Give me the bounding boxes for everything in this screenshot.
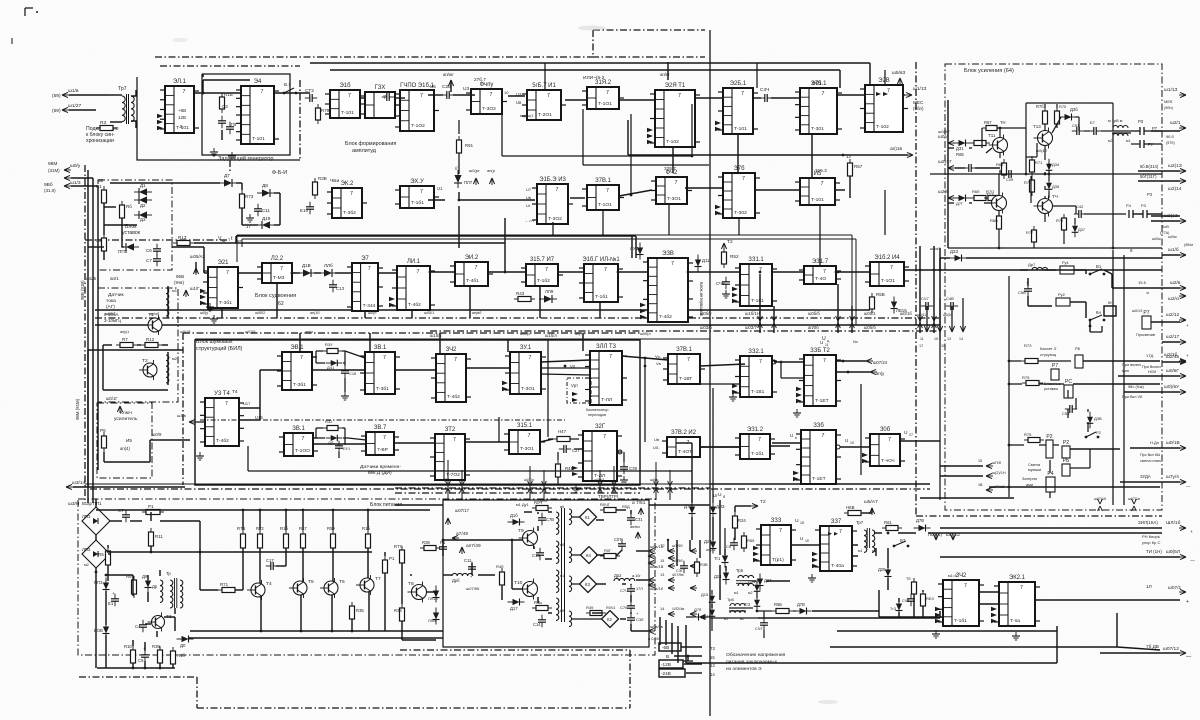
wire mid long y236: [236, 235, 568, 237]
svg-text:10: 10: [504, 90, 509, 95]
svg-text:R1З: R1З: [178, 235, 187, 240]
svg-text:ЭВ.1: ЭВ.1: [290, 345, 304, 351]
diode D7 rowB: [219, 182, 224, 184]
legend -6V: [659, 643, 681, 651]
svg-text:Т4: Т4: [232, 389, 238, 394]
wire long y155: [627, 120, 629, 155]
svg-text:Блок формирования: Блок формирования: [345, 141, 396, 147]
svg-text:К2: К2: [607, 617, 612, 622]
svg-text:7: 7: [417, 269, 420, 275]
svg-text:14: 14: [710, 672, 715, 677]
capacitor C7B: [541, 513, 543, 518]
IC E16.1 I1: [527, 90, 561, 120]
svg-text:С5В: С5В: [1018, 290, 1026, 295]
svg-text:7: 7: [528, 433, 531, 439]
svg-text:5б.В(314): 5б.В(314): [1140, 164, 1159, 169]
generator block frame: [137, 77, 300, 160]
terminal pairs mod right: [648, 550, 655, 552]
resistor R43: [518, 297, 531, 302]
svg-text:5гБ.7 И1: 5гБ.7 И1: [532, 83, 556, 89]
svg-text:Р7: Р7: [1152, 126, 1158, 131]
capacitor C38: [623, 462, 625, 467]
svg-text:Тг1: Тг1: [714, 556, 721, 561]
bridge LP2: [82, 540, 110, 568]
svg-text:U17: U17: [243, 401, 251, 406]
svg-text:ш2/1: ш2/1: [1170, 120, 1181, 126]
psu mid rail: [199, 521, 201, 552]
svg-text:С7В: С7В: [546, 517, 554, 522]
diode D2 ustavki: [147, 199, 152, 201]
svg-text:(9бп): (9бп): [1164, 106, 1174, 110]
svg-text:Д1б: Д1б: [510, 513, 518, 518]
svg-text:R71: R71: [1035, 160, 1043, 165]
svg-text:Т-1ОО: Т-1ОО: [295, 448, 310, 454]
relay RC: [1064, 385, 1073, 398]
svg-text:ш2)14: ш2)14: [1168, 186, 1182, 192]
ground rowC left: [209, 303, 211, 307]
svg-text:ш0(5Л: ш0(5Л: [1166, 549, 1180, 555]
svg-text:ап(4): ап(4): [120, 446, 130, 451]
svg-text:С31: С31: [635, 517, 643, 522]
capacitor C51: [1072, 130, 1077, 132]
transistor T13: [1038, 131, 1053, 146]
svg-text:ЭК2.1: ЭК2.1: [1009, 575, 1026, 581]
svg-text:Э7б: Э7б: [734, 166, 746, 172]
svg-text:С7б: С7б: [620, 605, 628, 610]
diode D7B br: [914, 527, 919, 529]
capacitor L45 br: [910, 594, 912, 599]
frame bottom outer dash: [79, 676, 197, 678]
IC E31.7: [804, 266, 836, 284]
svg-text:Блок судвоения: Блок судвоения: [255, 293, 296, 299]
wire psu out right: [189, 637, 443, 639]
svg-text:Т-2О1: Т-2О1: [538, 112, 552, 118]
legend -12V: [659, 660, 683, 668]
svg-text:НОИ: НОИ: [1148, 370, 1157, 374]
svg-text:Т-4б2: Т-4б2: [216, 438, 229, 444]
svg-text:R0Ч1: R0Ч1: [606, 606, 616, 610]
svg-text:Т-3б2: Т-3б2: [343, 210, 356, 216]
svg-text:ап(у1: ап(у1: [120, 330, 129, 334]
central bus dash line b: [95, 324, 940, 326]
capacitor GB osc: [229, 122, 231, 127]
svg-text:1б: 1б: [800, 521, 804, 525]
wires amp upper: [948, 147, 954, 149]
svg-text:7: 7: [183, 89, 186, 95]
capacitor C4B rowC: [725, 277, 727, 282]
svg-text:С11: С11: [262, 208, 270, 213]
svg-text:С2В: С2В: [442, 84, 451, 90]
wires E42 area: [898, 598, 900, 602]
svg-text:ш2/17: ш2/17: [1166, 334, 1180, 340]
svg-text:В: В: [666, 654, 669, 659]
svg-text:R11: R11: [155, 534, 163, 539]
svg-text:ап/1: ап/1: [110, 276, 119, 281]
svg-text:Д29: Д29: [878, 567, 886, 572]
svg-text:ш0/м: ш0/м: [1152, 237, 1161, 241]
capacitor C7 psu: [125, 510, 127, 515]
svg-text:ш1/5: ш1/5: [86, 276, 96, 281]
IC E4 oscillator: [241, 86, 274, 144]
svg-text:407/5в: 407/5в: [672, 573, 684, 577]
svg-text:ЗВ.7: ЗВ.7: [374, 425, 387, 431]
resistor R57: [848, 163, 853, 176]
relay R7 mid: [1051, 369, 1059, 380]
svg-text:Т-302: Т-302: [734, 210, 747, 216]
IC 315.7 I7: [526, 264, 558, 286]
svg-text:м1: м1: [172, 288, 178, 293]
svg-text:7: 7: [475, 265, 478, 271]
svg-text:7г3: 7г3: [890, 606, 897, 611]
frame top dash line 2: [160, 65, 300, 67]
svg-text:музыки: музыки: [1028, 467, 1041, 472]
svg-text:ЭХ.У: ЭХ.У: [410, 179, 424, 185]
svg-text:7: 7: [606, 188, 609, 194]
wire rowB to rowC drops: [458, 206, 460, 248]
transistor T2 datchik: [143, 363, 157, 377]
wires row B: [428, 199, 445, 201]
capacitor C4 psu: [142, 620, 144, 625]
svg-text:Т-1б1: Т-1б1: [954, 618, 967, 624]
svg-text:Тр: Тр: [166, 571, 171, 576]
svg-text:U: U: [795, 518, 799, 524]
svg-text:м2: м2: [748, 591, 752, 595]
svg-text:ш0/4: ш0/4: [938, 134, 949, 140]
IC E16G I2Ya: [584, 264, 618, 302]
svg-text:ЗЗБ Т2: ЗЗБ Т2: [810, 348, 830, 354]
IC E31.2: [740, 434, 770, 459]
svg-text:ЛЛб: ЛЛб: [324, 263, 333, 268]
wires Tg2 cluster: [711, 604, 713, 608]
svg-text:ш(2)/1Н: ш(2)/1Н: [992, 471, 1006, 475]
diode PP3: [105, 578, 107, 583]
svg-text:R77: R77: [1026, 230, 1033, 235]
relay Ru1: [1060, 266, 1074, 274]
svg-text:ТрБ: ТрБ: [727, 597, 734, 602]
wire rowA top runs: [450, 80, 452, 92]
resistor R44 mod: [536, 506, 548, 511]
svg-text:ЗЗ7: ЗЗ7: [831, 519, 841, 525]
diode VOV: [105, 622, 107, 627]
svg-text:7: 7: [742, 176, 745, 182]
relay boxes R3 R7 right: [1128, 210, 1130, 218]
svg-text:С4Ч: С4Ч: [760, 87, 769, 93]
diode D15: [711, 591, 713, 596]
svg-text:Д37: Д37: [1078, 227, 1085, 232]
transformer Tr6: [730, 604, 745, 607]
svg-text:Т-1б1: Т-1б1: [595, 294, 608, 300]
svg-text:РЗ: РЗ: [1138, 119, 1144, 124]
svg-text:упор Кр С: упор Кр С: [1142, 540, 1160, 545]
coil datchik: [166, 288, 169, 316]
svg-text:СЧ7: СЧ7: [921, 296, 929, 301]
svg-text:Д7Г: Д7Г: [956, 201, 964, 206]
mixer K1: [580, 509, 597, 526]
svg-text:R5Д: R5Д: [622, 504, 630, 509]
svg-text:ЭЗВ: ЭЗВ: [662, 251, 674, 257]
svg-text:13: 13: [947, 337, 951, 341]
svg-text:смена плать: смена плать: [1140, 459, 1161, 463]
svg-text:Т-1О2: Т-1О2: [411, 123, 425, 129]
svg-text:ш1/б: ш1/б: [1168, 247, 1179, 253]
frame amplifiers block: [945, 64, 1162, 510]
svg-text:ЛЛ1б: ЛЛ1б: [428, 596, 439, 601]
svg-text:Т-102: Т-102: [666, 139, 679, 145]
svg-text:из элементов Э: из элементов Э: [726, 666, 762, 672]
resistor R70: [988, 196, 999, 201]
IC EI.2: [455, 262, 488, 286]
thyristor Tg1: [724, 551, 726, 556]
IC 332.1: [740, 356, 772, 397]
relay P3 box: [1062, 446, 1070, 458]
diode D8: [257, 192, 262, 194]
terminal sh5/v3 top: [899, 78, 901, 85]
svg-text:Д9: Д9: [142, 574, 148, 579]
svg-text:R38: R38: [394, 608, 402, 613]
resistor R11 psu: [149, 532, 154, 546]
svg-text:Т-3О1: Т-3О1: [520, 446, 534, 452]
svg-text:12В: 12В: [178, 115, 186, 120]
svg-text:Uг: Uг: [526, 203, 531, 208]
svg-text:ЭИ.2: ЭИ.2: [465, 255, 479, 261]
svg-text:R59: R59: [327, 526, 335, 531]
smudge 2: [818, 700, 838, 704]
svg-text:С07: С07: [614, 537, 622, 542]
svg-text:15: 15: [941, 344, 945, 348]
svg-text:ш0(4б: ш0(4б: [1036, 149, 1048, 153]
wires to right bottom terminals: [940, 556, 1130, 558]
IC E3B.2 I2: [667, 437, 700, 457]
svg-text:U: U: [718, 492, 722, 498]
resistor R2 ustavki: [102, 238, 107, 251]
svg-text:К3: К3: [585, 582, 590, 587]
svg-text:R3У: R3У: [325, 342, 333, 347]
wires rowD rc: [312, 356, 316, 358]
diode LV15: [893, 297, 895, 302]
relay P2 box: [1046, 440, 1053, 458]
svg-text:R69: R69: [996, 162, 1004, 167]
capacitor C17 psu: [266, 565, 271, 567]
svg-text:Т(р1): Т(р1): [772, 557, 784, 563]
svg-text:Т-40а: Т-40а: [831, 563, 844, 569]
capacitor C11 rowB: [257, 204, 259, 209]
svg-text:Кассет З`: Кассет З`: [1040, 346, 1058, 351]
svg-text:R0Г: R0Г: [604, 548, 612, 553]
resistor R71 amp: [1030, 160, 1035, 172]
svg-text:7: 7: [420, 93, 423, 99]
terminals under C47: [926, 306, 928, 330]
svg-text:СЧВ: СЧВ: [716, 281, 725, 286]
svg-text:ЗУ.1: ЗУ.1: [520, 345, 532, 351]
svg-text:Блок шумовых: Блок шумовых: [196, 339, 233, 345]
svg-text:ТИ (1Н): ТИ (1Н): [1146, 549, 1162, 554]
IC E L.1 (driving oscillator): [165, 86, 194, 133]
svg-text:7: 7: [350, 191, 353, 197]
svg-text:7: 7: [822, 433, 825, 439]
terminal sh2/17 amp: [948, 167, 955, 169]
diode D37: [1074, 221, 1076, 226]
svg-text:Сб: Сб: [726, 544, 732, 549]
resistor R59 col: [331, 534, 336, 548]
capacitor EU1 rowE: [338, 441, 340, 446]
diode D16 br2: [711, 605, 713, 610]
resistor R5 psu: [106, 551, 111, 565]
capacitor C2V: [442, 94, 447, 96]
svg-text:R7б: R7б: [1036, 104, 1044, 109]
svg-text:R77: R77: [394, 544, 402, 549]
svg-text:ш2/сг: ш2/сг: [1168, 296, 1180, 302]
resistor R73: [240, 194, 245, 208]
svg-text:Дрб: Дрб: [452, 578, 460, 583]
svg-text:Т-1О1: Т-1О1: [598, 202, 612, 208]
IC T1L: [668, 354, 700, 384]
svg-text:ап(70: ап(70: [575, 332, 584, 336]
svg-text:R5Б: R5Б: [774, 602, 782, 607]
svg-text:С09: С09: [1006, 177, 1013, 182]
frame top dash line 3: [592, 56, 705, 58]
svg-text:3В: 3В: [98, 178, 103, 183]
svg-text:R12: R12: [146, 337, 155, 342]
wires mixers out: [596, 519, 604, 521]
svg-text:5чВ: 5чВ: [1162, 224, 1169, 229]
svg-text:R79: R79: [1022, 375, 1030, 380]
svg-text:R79: R79: [321, 108, 330, 113]
wire verticals upper extra: [544, 63, 546, 90]
svg-text:11: 11: [825, 343, 829, 347]
svg-text:м2: м2: [172, 356, 178, 361]
ground E42: [935, 630, 937, 634]
terminal sh1/27: [62, 109, 69, 111]
svg-text:ш0(рт: ш0(рт: [469, 168, 480, 173]
svg-text:ш2)17: ш2)17: [938, 159, 952, 165]
svg-text:Р2: Р2: [1096, 430, 1102, 435]
svg-text:С3: С3: [222, 104, 228, 109]
capacitor C16 rowD: [344, 366, 346, 371]
svg-text:ш0/1З: ш0/1З: [1132, 309, 1143, 313]
svg-text:96В: 96В: [176, 274, 184, 279]
svg-text:R55: R55: [747, 538, 755, 543]
resistor R63 br: [921, 594, 926, 606]
svg-text:Прс Вкл КЫ: Прс Вкл КЫ: [1140, 453, 1160, 457]
wires vertical feeds DE: [299, 333, 301, 352]
svg-text:R67: R67: [984, 120, 992, 125]
resistor R69: [1002, 163, 1007, 175]
terminal sh5/A7: [871, 508, 873, 515]
svg-text:ш05/1: ш05/1: [424, 311, 434, 315]
svg-text:стукующ: стукующ: [1040, 352, 1057, 357]
svg-text:С13: С13: [336, 286, 345, 291]
svg-text:Д7В: Д7В: [797, 602, 805, 607]
svg-text:7: 7: [547, 93, 550, 99]
svg-text:ш0/у: ш0/у: [70, 163, 81, 169]
svg-text:Датчики временн-: Датчики временн-: [360, 464, 401, 470]
svg-text:Р7: Р7: [1143, 310, 1149, 316]
svg-text:ТЧ: ТЧ: [1052, 194, 1058, 199]
svg-text:R2: R2: [96, 238, 102, 243]
svg-text:U: U: [790, 433, 793, 438]
svg-text:З15.1: З15.1: [517, 423, 533, 429]
capacitor C09: [1004, 173, 1009, 175]
resistor R58: [870, 297, 875, 309]
resistor R73 amp: [1025, 359, 1038, 364]
svg-text:7: 7: [687, 357, 690, 363]
svg-text:ш0б/1: ш0б/1: [864, 311, 876, 316]
svg-text:СТ2: СТ2: [305, 88, 314, 94]
svg-text:U: U: [845, 438, 848, 443]
svg-text:RБЗ: RБЗ: [926, 596, 934, 601]
svg-text:Др2: Др2: [614, 573, 622, 578]
svg-text:С5: С5: [138, 658, 144, 663]
resistor P1b psu: [383, 560, 388, 573]
svg-text:Д19: Д19: [262, 216, 271, 221]
resistor R0 mod: [604, 554, 616, 559]
svg-text:С7: С7: [146, 258, 152, 263]
svg-text:7: 7: [609, 354, 612, 360]
svg-text:27: 27: [909, 433, 913, 437]
resistor R38 mod: [400, 608, 405, 621]
terminal sh1/1 rt: [1179, 94, 1186, 96]
svg-text:7: 7: [822, 91, 825, 97]
svg-text:а.10г: а.10г: [632, 574, 641, 578]
central bus dash line c: [430, 330, 940, 332]
svg-text:Р3: Р3: [1141, 203, 1147, 208]
terminal sh2/5 amp: [948, 197, 955, 199]
svg-text:7: 7: [823, 269, 826, 275]
svg-text:7: 7: [383, 355, 386, 361]
svg-text:С39: С39: [629, 466, 638, 471]
svg-text:1Л: 1Л: [1146, 584, 1152, 589]
resistor R32 rowE: [327, 426, 338, 431]
svg-text:ш0З/б: ш0З/б: [700, 325, 713, 330]
wire y156 rail: [502, 155, 693, 157]
terminal sh2/4v: [1179, 361, 1186, 363]
svg-text:ЗВ.1: ЗВ.1: [374, 345, 387, 351]
svg-text:мВ: мВ: [560, 609, 565, 613]
frame modulator block: [443, 500, 649, 647]
svg-text:R1б: R1б: [362, 526, 370, 531]
diode D18 rowC: [298, 272, 303, 274]
wires rowE rc: [313, 437, 325, 439]
svg-text:Р3: Р3: [1147, 192, 1153, 197]
svg-text:м1: м1: [858, 549, 862, 553]
wires modulator: [410, 574, 412, 576]
IC E33: [761, 525, 791, 565]
svg-text:U7: U7: [526, 187, 532, 192]
terminals lo54: [935, 533, 937, 540]
svg-text:7: 7: [675, 180, 678, 186]
resistor P1 psu: [146, 510, 160, 515]
terminal T2 br: [751, 505, 758, 507]
IC E7 rowC: [352, 263, 378, 311]
svg-text:Д17: Д17: [510, 606, 518, 611]
terminal sh0/12 r: [1179, 319, 1186, 321]
svg-text:м5: м5: [560, 505, 564, 509]
wires rows DE: [239, 419, 260, 421]
terminal 98M: [64, 169, 71, 171]
svg-text:в: в: [795, 436, 797, 440]
svg-text:7: 7: [545, 267, 548, 273]
svg-text:9б.б: 9б.б: [1166, 134, 1174, 139]
svg-text:С14: С14: [533, 622, 541, 627]
switch V1 top: [283, 92, 286, 95]
svg-text:ЭЛ.1: ЭЛ.1: [173, 79, 187, 85]
diode R45 LL1b: [435, 586, 437, 591]
svg-text:R5: R5: [98, 552, 104, 557]
svg-text:Просвечив: Просвечив: [1136, 333, 1155, 337]
svg-text:ап/юг: ап/юг: [443, 72, 454, 77]
svg-text:С42: С42: [1076, 204, 1084, 209]
capacitor CT2: [305, 97, 310, 99]
